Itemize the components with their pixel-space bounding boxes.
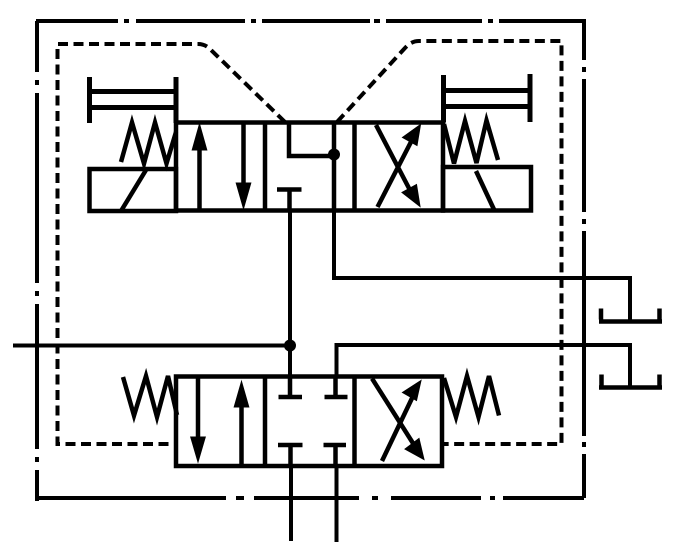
V2 left return spring (123, 376, 177, 417)
junction dot A-B (328, 149, 340, 161)
V2 right return spring (444, 376, 499, 417)
V2 right position crossed arrow 1 (372, 379, 424, 460)
V2 centre blocked port T top-right (325, 377, 348, 397)
V2 left position up arrow (234, 382, 249, 465)
wire V1 port B to right coupling 1 (334, 210, 630, 321)
V2 centre blocked port T top-left (279, 377, 303, 397)
valve V1 body (top 4/3 valve) (176, 123, 443, 211)
V1 left position up arrow (192, 124, 207, 209)
wire V2 port B to right coupling 2 (337, 345, 631, 387)
enclosure chain-line boundary (36, 19, 586, 501)
valve V2 body (bottom 4/3 valve) (176, 377, 442, 467)
V2 centre blocked port T bottom-right (324, 445, 347, 466)
V1 centre blocked port T (277, 190, 302, 211)
V1 left position down arrow (236, 124, 251, 209)
V1 right centering spring (444, 121, 498, 164)
V1 right end-cap rails (444, 91, 531, 107)
pilot line right (dashed) (337, 41, 562, 444)
coupling 2 (test connection) (599, 375, 662, 388)
wire V1 port P down to node (288, 210, 292, 377)
V2 right position crossed arrow 2 (382, 381, 421, 462)
V1 right solenoid (443, 167, 531, 211)
V2 centre blocked port T bottom-left (278, 445, 303, 466)
wire bottom external port 2 (335, 466, 339, 542)
V1 left end-cap posts (connector symbol) (90, 77, 177, 123)
wire left external port (13, 344, 290, 348)
V1 left end-cap rails (90, 92, 177, 108)
coupling 1 (test connection) (599, 309, 662, 322)
V2 left position down arrow (191, 379, 206, 463)
wire bottom external port 1 (289, 466, 293, 541)
pilot line left (dashed) (58, 44, 286, 444)
V1 right position crossed arrow 1 (376, 125, 420, 207)
V1 left solenoid (90, 169, 177, 211)
V1 centre position port A line (289, 124, 334, 156)
V1 right position crossed arrow 2 (378, 125, 421, 208)
V1 right end-cap posts (connector symbol) (444, 74, 531, 123)
V1 centre position port B line (332, 124, 337, 209)
V1 left centering spring (121, 123, 176, 164)
node junction dot (284, 340, 296, 352)
